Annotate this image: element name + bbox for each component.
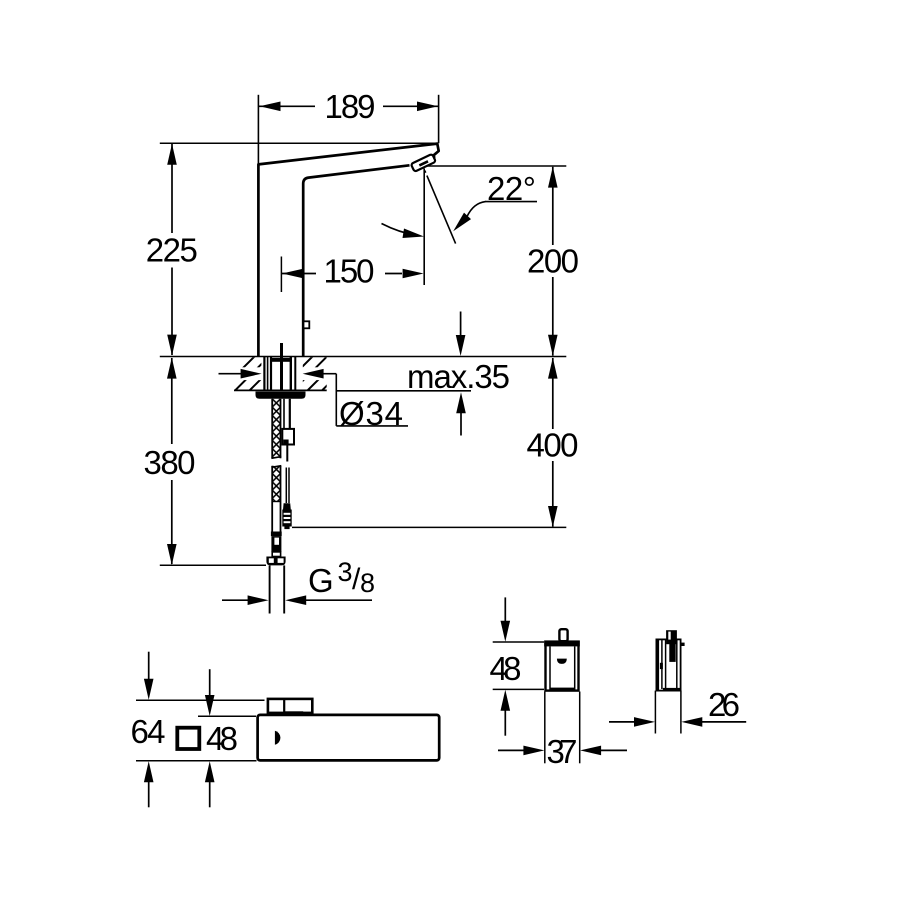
dim 48 (front) arrows	[504, 597, 506, 622]
front box bottom band	[550, 688, 575, 692]
dim 64 extension top	[136, 699, 265, 701]
flow direction arc arrow	[382, 224, 418, 236]
dim 150 line	[282, 273, 316, 275]
side box top tab	[666, 630, 677, 644]
hose nut	[271, 536, 281, 552]
dim 200 line	[552, 167, 554, 245]
dim 37 extensions	[544, 692, 546, 764]
connection pipe below fitting	[269, 565, 271, 613]
top view body	[258, 715, 440, 761]
O34 callout leader	[335, 374, 337, 426]
water stream angled line 22deg	[424, 171, 427, 173]
svg-text:400: 400	[527, 426, 579, 463]
bottom extension line (hose end)	[160, 564, 266, 566]
side box dark stripe	[669, 639, 675, 662]
aerator housing	[411, 154, 436, 172]
dim 200 extension line (spout outlet)	[427, 165, 566, 167]
svg-text:200: 200	[527, 242, 579, 279]
sensor window protrusion on body	[304, 321, 310, 328]
spray hole mark	[275, 731, 281, 745]
side box small dark tick	[660, 663, 663, 669]
svg-text:225: 225	[146, 232, 198, 269]
dim 37 arrows	[498, 749, 525, 751]
dim G3/8 arrows	[222, 599, 250, 601]
svg-text:8: 8	[360, 568, 375, 598]
dim 400 line	[552, 358, 554, 429]
dim 26 arrows	[609, 721, 635, 723]
dim 48 extension top	[198, 715, 256, 717]
svg-text:max.35: max.35	[407, 358, 510, 395]
mounting surface line	[160, 356, 567, 358]
shank in deck hole	[264, 343, 295, 391]
top reference line at spout tip level	[160, 142, 438, 144]
inner pipe junction box	[282, 429, 294, 445]
front box inner lines	[549, 646, 551, 690]
dim max35 lower arrow	[460, 412, 462, 436]
aerator slot	[419, 160, 429, 166]
svg-text:Ø34: Ø34	[339, 395, 403, 432]
svg-text:3: 3	[338, 557, 353, 587]
dim O34 arrows at shank	[219, 373, 244, 375]
bottom extension	[136, 760, 257, 762]
dim 48 (front) extensions	[493, 641, 544, 643]
logo mark	[557, 659, 567, 664]
braided hose upper section	[272, 399, 280, 458]
dim 189 line	[259, 105, 315, 107]
svg-text:37: 37	[547, 733, 578, 770]
svg-text:64: 64	[131, 713, 166, 750]
dim 64 arrows	[148, 652, 150, 680]
front box top plug	[559, 629, 567, 641]
hose end fitting	[266, 557, 285, 566]
hose plain tube	[271, 502, 273, 533]
front box outline	[546, 642, 579, 691]
side box bottom band	[663, 688, 681, 691]
dim 225 line	[171, 144, 173, 233]
hose collar dark band	[271, 532, 282, 537]
sensor cable upper	[286, 445, 288, 462]
faucet spout outline	[258, 144, 438, 357]
inner pipe from flange	[283, 399, 285, 429]
sensor cable lower	[285, 468, 287, 504]
svg-text:26: 26	[708, 686, 740, 723]
front box top band	[544, 640, 580, 646]
shank dark top band	[270, 358, 290, 362]
dim 189 extension line right	[438, 95, 440, 143]
dim 189 extension line left	[257, 95, 259, 164]
svg-text:380: 380	[144, 444, 196, 481]
svg-text:48: 48	[206, 720, 238, 757]
square symbol	[177, 728, 199, 749]
dim 26 extensions	[654, 691, 656, 734]
22deg leader arrow	[467, 202, 486, 217]
backnut flange under deck	[256, 392, 306, 399]
sensor housing on top	[268, 699, 312, 713]
svg-text:189: 189	[325, 88, 376, 125]
dim 48 arrows	[209, 669, 211, 696]
sensor housing base band	[284, 711, 303, 715]
dim 400 bottom extension line	[292, 526, 566, 528]
deck cross-section hatching	[220, 356, 357, 391]
water stream vertical line	[423, 169, 425, 286]
deck bottom line	[234, 389, 327, 391]
side box inner lines	[661, 640, 663, 689]
svg-text:150: 150	[324, 253, 375, 290]
dim 380 line	[171, 358, 173, 444]
side box outline	[656, 639, 680, 690]
sensor housing divider	[283, 699, 285, 713]
svg-text:48: 48	[490, 650, 522, 687]
side box right nub	[681, 643, 685, 646]
cable plug connector	[283, 503, 291, 509]
dim max35 upper arrow	[460, 312, 462, 337]
side box left thick edge	[656, 639, 659, 690]
hatch interruption bands for dimension arrows	[234, 367, 262, 380]
faucet inner edge / spout underside	[303, 165, 409, 356]
dim 150 extension line	[280, 257, 282, 293]
braided hose lower section	[272, 466, 280, 502]
22deg underline	[485, 201, 537, 203]
svg-text:G: G	[308, 562, 334, 599]
nut lower tube	[272, 552, 280, 557]
